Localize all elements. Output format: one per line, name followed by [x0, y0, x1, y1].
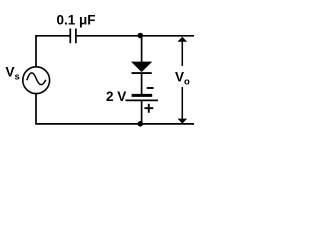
battery minus sign label — [147, 87, 154, 89]
node junction dot top (node A) — [138, 33, 144, 39]
svg-text:Vo: Vo — [175, 69, 190, 87]
battery B1 negative plate (short thick) — [132, 94, 153, 97]
battery plus sign label — [144, 104, 153, 113]
wire diode cathode to battery — [141, 73, 143, 95]
wire top-left horizontal (source to capacitor) — [35, 35, 69, 37]
diode D1 triangle (anode, pointing down) — [132, 62, 151, 72]
capacitor C1 left plate — [69, 29, 71, 44]
wire diode branch upper (top node to diode anode) — [141, 36, 143, 62]
node junction dot bottom — [138, 121, 144, 127]
wire battery to bottom node — [141, 100, 143, 124]
wire left vertical upper (top wire to source) — [35, 36, 37, 67]
svg-text:2 V: 2 V — [106, 89, 126, 104]
wire top horizontal (capacitor to right end) — [77, 35, 194, 37]
svg-text:Vs: Vs — [6, 64, 20, 82]
svg-text:0.1 μF: 0.1 μF — [57, 12, 96, 27]
wire left vertical lower (source to bottom wire) — [35, 94, 37, 124]
wire bottom horizontal — [35, 123, 194, 125]
voltage source Vs circle — [23, 67, 50, 94]
diode D1 cathode bar — [132, 72, 152, 74]
Vo measurement arrow down (tip at bottom wire) — [181, 87, 183, 119]
Vo measurement arrow up (tip at top wire) — [181, 41, 183, 67]
voltage source Vs sine wave — [27, 73, 46, 85]
capacitor C1 right plate — [75, 29, 77, 44]
battery B1 positive plate (long thin) — [126, 99, 159, 101]
